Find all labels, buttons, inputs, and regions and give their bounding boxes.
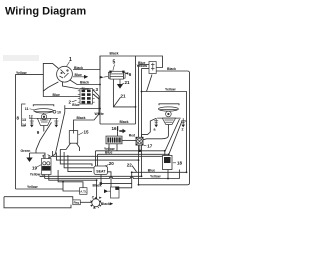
svg-text:14: 14 <box>22 123 26 127</box>
wire red fuse to 17 <box>122 139 136 141</box>
wire yellow mid y150.8 <box>96 150 165 152</box>
svg-text:21: 21 <box>125 80 131 85</box>
junction square <box>100 182 102 184</box>
junction dots <box>62 84 187 186</box>
wire comp15 leg a <box>60 143 71 149</box>
rectifier box 7 <box>149 62 156 74</box>
svg-text:20: 20 <box>109 161 115 166</box>
wire yellow right top <box>142 92 187 173</box>
hour meter box <box>111 187 120 198</box>
left headlamp <box>29 105 58 126</box>
wire y184.8 right <box>139 184 188 186</box>
wire long diagonal to solenoid 19 <box>49 105 65 158</box>
wire 22 pointer diagonal <box>132 166 137 172</box>
svg-text:16: 16 <box>112 126 118 131</box>
wire switch bottom to connector <box>63 82 80 89</box>
svg-text:22: 22 <box>127 162 133 167</box>
right headlamp <box>157 104 181 125</box>
svg-text:Blue: Blue <box>148 168 155 172</box>
wire blue mid y154.3 <box>98 153 169 155</box>
svg-text:Black: Black <box>77 116 86 120</box>
wire yellow y189 <box>16 182 64 189</box>
wire seat right drop <box>108 172 112 187</box>
svg-text:Yellow: Yellow <box>16 71 27 75</box>
svg-text:Yellow: Yellow <box>30 172 41 176</box>
svg-text:Black: Black <box>80 81 89 85</box>
wire seat drop a <box>95 151 97 166</box>
fuse block hatched <box>106 136 122 144</box>
svg-text:Black: Black <box>110 52 119 56</box>
svg-text:Blue: Blue <box>53 93 60 97</box>
wire vertical x141.5 <box>141 69 143 177</box>
pointer line 21 lower <box>114 97 121 106</box>
wire yellow long y178.5 <box>45 170 180 179</box>
wire white vertical <box>74 96 100 131</box>
svg-text:Yellow: Yellow <box>27 185 38 189</box>
svg-text:Blue: Blue <box>72 103 79 107</box>
wire solenoid fan b <box>44 175 46 179</box>
wire right-lamp left drop to 17 <box>142 118 157 137</box>
starter solenoid 19 <box>42 155 52 175</box>
svg-text:SEAT: SEAT <box>96 169 106 173</box>
svg-text:Green: Green <box>21 149 31 153</box>
wire atl left feed <box>63 189 80 191</box>
wire diag lamp to box18 b <box>169 121 182 156</box>
wire coil down and over <box>113 80 135 107</box>
svg-text:13: 13 <box>22 118 26 122</box>
svg-text:2: 2 <box>182 128 184 132</box>
wire fuse16 stub down <box>117 131 119 136</box>
svg-text:Yellow: Yellow <box>165 87 176 91</box>
svg-text:5: 5 <box>113 60 116 66</box>
wire right-lamp stem to 17 <box>143 125 168 140</box>
wire comp15 leg b <box>77 143 80 151</box>
wire diag lamp to box18 a <box>165 119 180 156</box>
wire reg to engine <box>80 201 91 203</box>
wire left lamp stem <box>43 126 45 132</box>
ignition coil 5 <box>108 71 125 79</box>
arrow into coil left <box>100 76 104 79</box>
regulator box <box>73 200 81 205</box>
engine magneto <box>90 196 102 209</box>
wire green link to 19 <box>36 153 45 159</box>
wire black y124 <box>100 123 136 125</box>
wire stair y156.3 <box>53 151 163 156</box>
right bulb a <box>154 118 158 125</box>
left bulb a <box>30 118 34 125</box>
svg-text:17: 17 <box>147 144 153 149</box>
svg-text:Yellow: Yellow <box>150 175 161 179</box>
svg-text:10: 10 <box>57 111 61 115</box>
wire black switch right lower <box>70 80 100 85</box>
wire switch lower-left to blue <box>43 82 58 91</box>
lamp terminal 10 <box>50 111 54 113</box>
wire black y183.4 <box>101 172 132 183</box>
wire right bulb tick <box>185 120 187 122</box>
svg-text:Blue: Blue <box>105 150 112 154</box>
svg-text:15: 15 <box>84 130 90 135</box>
wire meter right y187.8 <box>119 183 132 187</box>
wire vertical x135.5 <box>135 56 137 124</box>
svg-text:A.T.L: A.T.L <box>80 189 87 193</box>
wire vertical x138.5 <box>138 65 140 185</box>
seat switch 20 <box>94 166 108 175</box>
svg-text:Wiring Diagram: Wiring Diagram <box>5 6 86 18</box>
wire black top run <box>100 56 163 70</box>
relay 17 <box>136 137 143 145</box>
wire box7 bottom diagonal <box>147 75 153 92</box>
wire lamp diag to green ground <box>30 122 52 153</box>
wire green ground stem <box>29 153 31 158</box>
wire yellow feed top left <box>16 63 59 74</box>
wire seat bottom drop <box>100 175 102 184</box>
svg-text:Black: Black <box>120 120 129 124</box>
wire y196.7 <box>4 197 73 200</box>
wire solenoid fan a <box>40 175 43 177</box>
svg-text:19: 19 <box>32 166 38 171</box>
connector 2/3 pin block <box>78 89 95 105</box>
svg-text:Blue: Blue <box>75 73 82 77</box>
svg-text:21: 21 <box>121 94 127 99</box>
key switch 1 <box>57 66 73 82</box>
svg-text:18: 18 <box>177 161 183 166</box>
wire fan d y181.8 <box>58 170 83 188</box>
left headlamp bracket <box>22 104 26 126</box>
wire yellow y176.3 <box>40 175 142 177</box>
wire fuse block stub a <box>108 144 110 151</box>
svg-text:White: White <box>95 112 104 116</box>
left bulb b <box>54 118 58 125</box>
wire left main vertical <box>15 74 17 189</box>
svg-text:Reg: Reg <box>74 201 80 205</box>
wire black right top <box>156 71 189 185</box>
svg-text:Black: Black <box>74 66 83 70</box>
svg-text:Yellow: Yellow <box>137 64 148 68</box>
wire engine feed vertical <box>96 180 98 198</box>
svg-text:Red: Red <box>129 134 135 138</box>
component 15 <box>69 131 77 144</box>
wire stair y167.8 <box>64 152 94 168</box>
wire fuse block stub b <box>116 144 118 151</box>
wire stair y160.1 <box>56 153 138 161</box>
svg-text:12: 12 <box>29 115 33 119</box>
wire lamp-row horizontal y108.5 <box>65 108 100 110</box>
ignition module 18 <box>163 156 173 170</box>
wire solenoid fan c <box>49 175 97 181</box>
wire stair y163.9 <box>60 150 92 167</box>
wire connector right diag a <box>93 90 99 96</box>
faint scan smudge <box>3 55 39 61</box>
wire connector right diag b <box>93 94 99 99</box>
wire box18 bottom <box>167 170 169 179</box>
wire vertical x100 <box>99 56 101 124</box>
interlock module ATL <box>80 188 87 195</box>
wire seat drop b <box>97 154 99 166</box>
svg-text:Black: Black <box>167 67 176 71</box>
wire blue y172.3 <box>132 171 187 173</box>
wire stair y171.6 <box>68 155 92 172</box>
svg-text:11: 11 <box>25 107 29 111</box>
right bulb b <box>181 118 185 125</box>
wire box7 yellow pin <box>142 68 150 70</box>
label 3 <box>93 89 95 91</box>
wire black switch right top <box>73 69 100 71</box>
wire bottom y207.8 <box>4 197 71 208</box>
ground 21 below coil <box>119 80 121 85</box>
svg-text:Black: Black <box>101 202 110 206</box>
wire box7 blue pin <box>139 64 150 66</box>
